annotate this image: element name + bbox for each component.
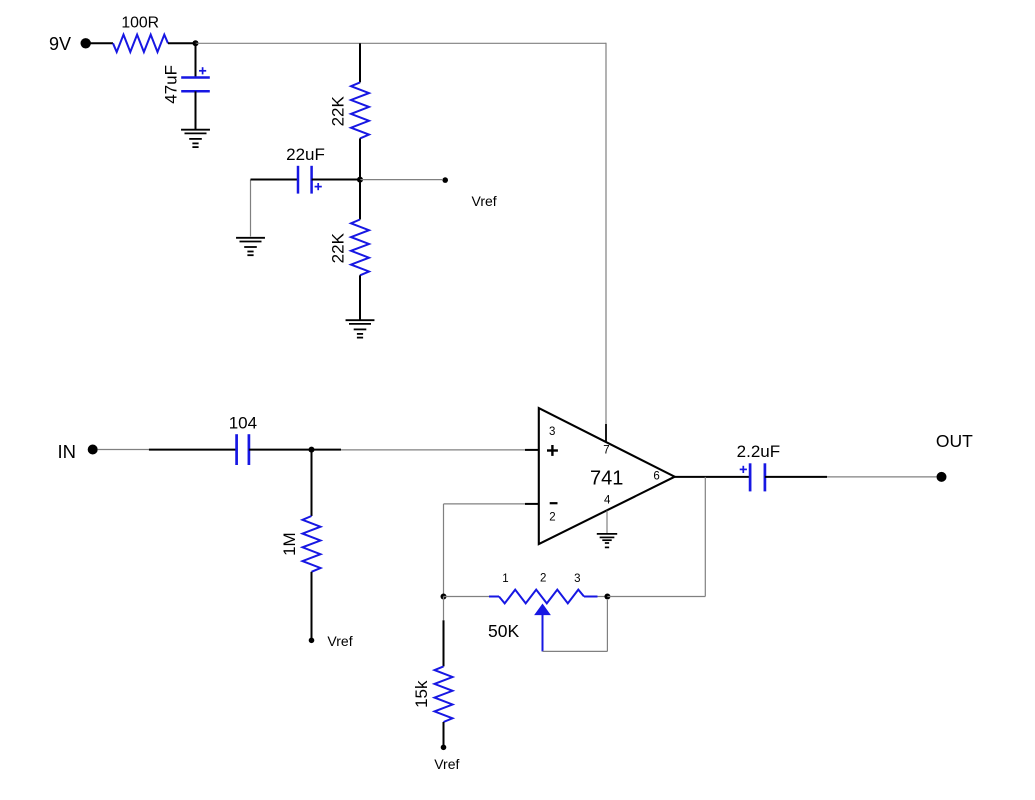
svg-text:Vref: Vref <box>472 193 497 209</box>
svg-text:1: 1 <box>502 573 508 585</box>
svg-text:1M: 1M <box>280 532 299 556</box>
svg-text:22K: 22K <box>329 232 348 263</box>
svg-text:OUT: OUT <box>936 431 973 451</box>
svg-text:Vref: Vref <box>327 633 352 649</box>
svg-text:22uF: 22uF <box>286 145 325 164</box>
svg-text:2: 2 <box>540 573 546 585</box>
svg-text:50K: 50K <box>488 621 519 641</box>
svg-text:3: 3 <box>574 573 580 585</box>
svg-text:15k: 15k <box>412 680 431 708</box>
svg-text:2.2uF: 2.2uF <box>737 442 780 461</box>
svg-text:2: 2 <box>549 512 555 524</box>
svg-text:4: 4 <box>604 495 611 507</box>
svg-text:7: 7 <box>603 444 609 456</box>
svg-text:22K: 22K <box>329 96 348 127</box>
svg-text:47uF: 47uF <box>162 65 181 104</box>
svg-text:IN: IN <box>58 441 77 462</box>
svg-text:6: 6 <box>653 471 659 483</box>
svg-text:Vref: Vref <box>434 756 459 772</box>
svg-text:104: 104 <box>229 413 257 432</box>
svg-text:100R: 100R <box>121 14 159 31</box>
svg-text:741: 741 <box>590 467 623 489</box>
svg-text:3: 3 <box>549 426 555 438</box>
svg-text:9V: 9V <box>49 34 71 54</box>
